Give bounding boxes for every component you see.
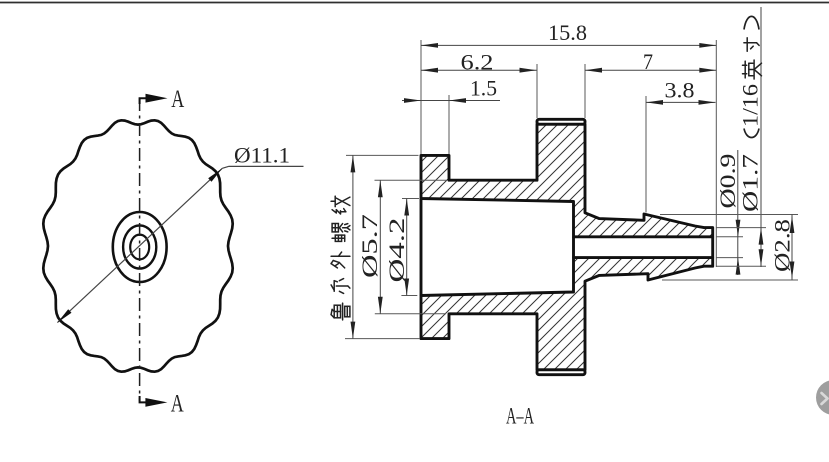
tip face edge across bore bbox=[711, 237, 714, 258]
svg-text:Ø4.2: Ø4.2 bbox=[384, 218, 409, 283]
flange top cap bbox=[537, 119, 585, 124]
extension lines for O1.7 bbox=[716, 227, 766, 229]
section arrow top bbox=[140, 98, 150, 104]
svg-text:Ø1.7: Ø1.7 bbox=[738, 154, 763, 212]
svg-text:Ø5.7: Ø5.7 bbox=[357, 214, 382, 278]
svg-text:A: A bbox=[171, 86, 184, 113]
svg-text:1.5: 1.5 bbox=[470, 76, 497, 101]
dimension O4.2 bbox=[406, 199, 408, 296]
top border line bbox=[0, 2, 829, 4]
svg-text:Ø0.9: Ø0.9 bbox=[715, 154, 740, 209]
extension line barb x=646 bbox=[645, 96, 647, 213]
gray nav button bbox=[816, 380, 829, 415]
extension line tip x=716.3 bbox=[715, 40, 717, 267]
left face edge across bore mouth bbox=[420, 199, 423, 296]
cone base edge across small bore bbox=[572, 237, 575, 258]
diameter dimension line O11.1 bbox=[57, 168, 222, 322]
extension line collar step x=449 bbox=[448, 95, 450, 154]
inner circle bbox=[130, 235, 149, 260]
svg-text:A–A: A–A bbox=[506, 404, 534, 430]
svg-text:7: 7 bbox=[643, 49, 653, 74]
extension lines for O2.8 bbox=[660, 214, 798, 216]
dimension O1.7 bbox=[760, 7, 762, 267]
extension lines for collar OD bbox=[346, 154, 419, 156]
extension line flange right x=585 bbox=[584, 64, 586, 118]
svg-text:Ø2.8: Ø2.8 bbox=[770, 219, 795, 272]
dimension O0.9 (arrows outside) bbox=[737, 150, 739, 275]
outer circle bbox=[113, 212, 167, 282]
extension line left face x=421 bbox=[420, 40, 422, 154]
svg-text:Ø11.1: Ø11.1 bbox=[234, 143, 290, 168]
dimension 1.5 (arrows outside) bbox=[402, 100, 421, 102]
dimension O5.7 bbox=[379, 180, 381, 314]
dimension 15.8 bbox=[421, 44, 716, 46]
text O1.7 (1/16 inch) rotated bbox=[738, 84, 763, 212]
section body upper half (hatched) bbox=[421, 124, 713, 237]
extension lines for O5.7 bbox=[375, 179, 448, 181]
flange bottom cap bbox=[537, 370, 585, 375]
extension lines for O4.2 bbox=[402, 198, 419, 200]
extension lines for O0.9 bbox=[716, 236, 743, 238]
svg-text:6.2: 6.2 bbox=[461, 50, 494, 75]
extension line flange left x=537 bbox=[536, 64, 538, 118]
text luer external thread (CJK) rotated bbox=[331, 196, 350, 214]
vertical centerline (cutting plane A-A) bbox=[139, 98, 141, 402]
dimension 6.2 bbox=[421, 69, 537, 71]
svg-text:15.8: 15.8 bbox=[548, 20, 587, 45]
svg-text:3.8: 3.8 bbox=[665, 78, 695, 103]
section arrow bottom bbox=[140, 396, 150, 402]
section body lower half (hatched) bbox=[421, 258, 713, 370]
dimension O2.8 bbox=[791, 215, 793, 281]
middle circle bbox=[123, 225, 156, 268]
left view knurled knob outline bbox=[43, 120, 232, 371]
dimension 3.8 bbox=[646, 101, 716, 103]
svg-text:A: A bbox=[171, 391, 184, 418]
fullwidth paren close (rotated) bbox=[744, 16, 759, 29]
fullwidth paren open (rotated) bbox=[744, 129, 759, 138]
leader line for O11.1 bbox=[222, 166, 228, 168]
dimension 7 bbox=[585, 69, 716, 71]
label line luer thread (dim) bbox=[352, 155, 354, 338]
svg-text:1/16: 1/16 bbox=[738, 84, 763, 127]
